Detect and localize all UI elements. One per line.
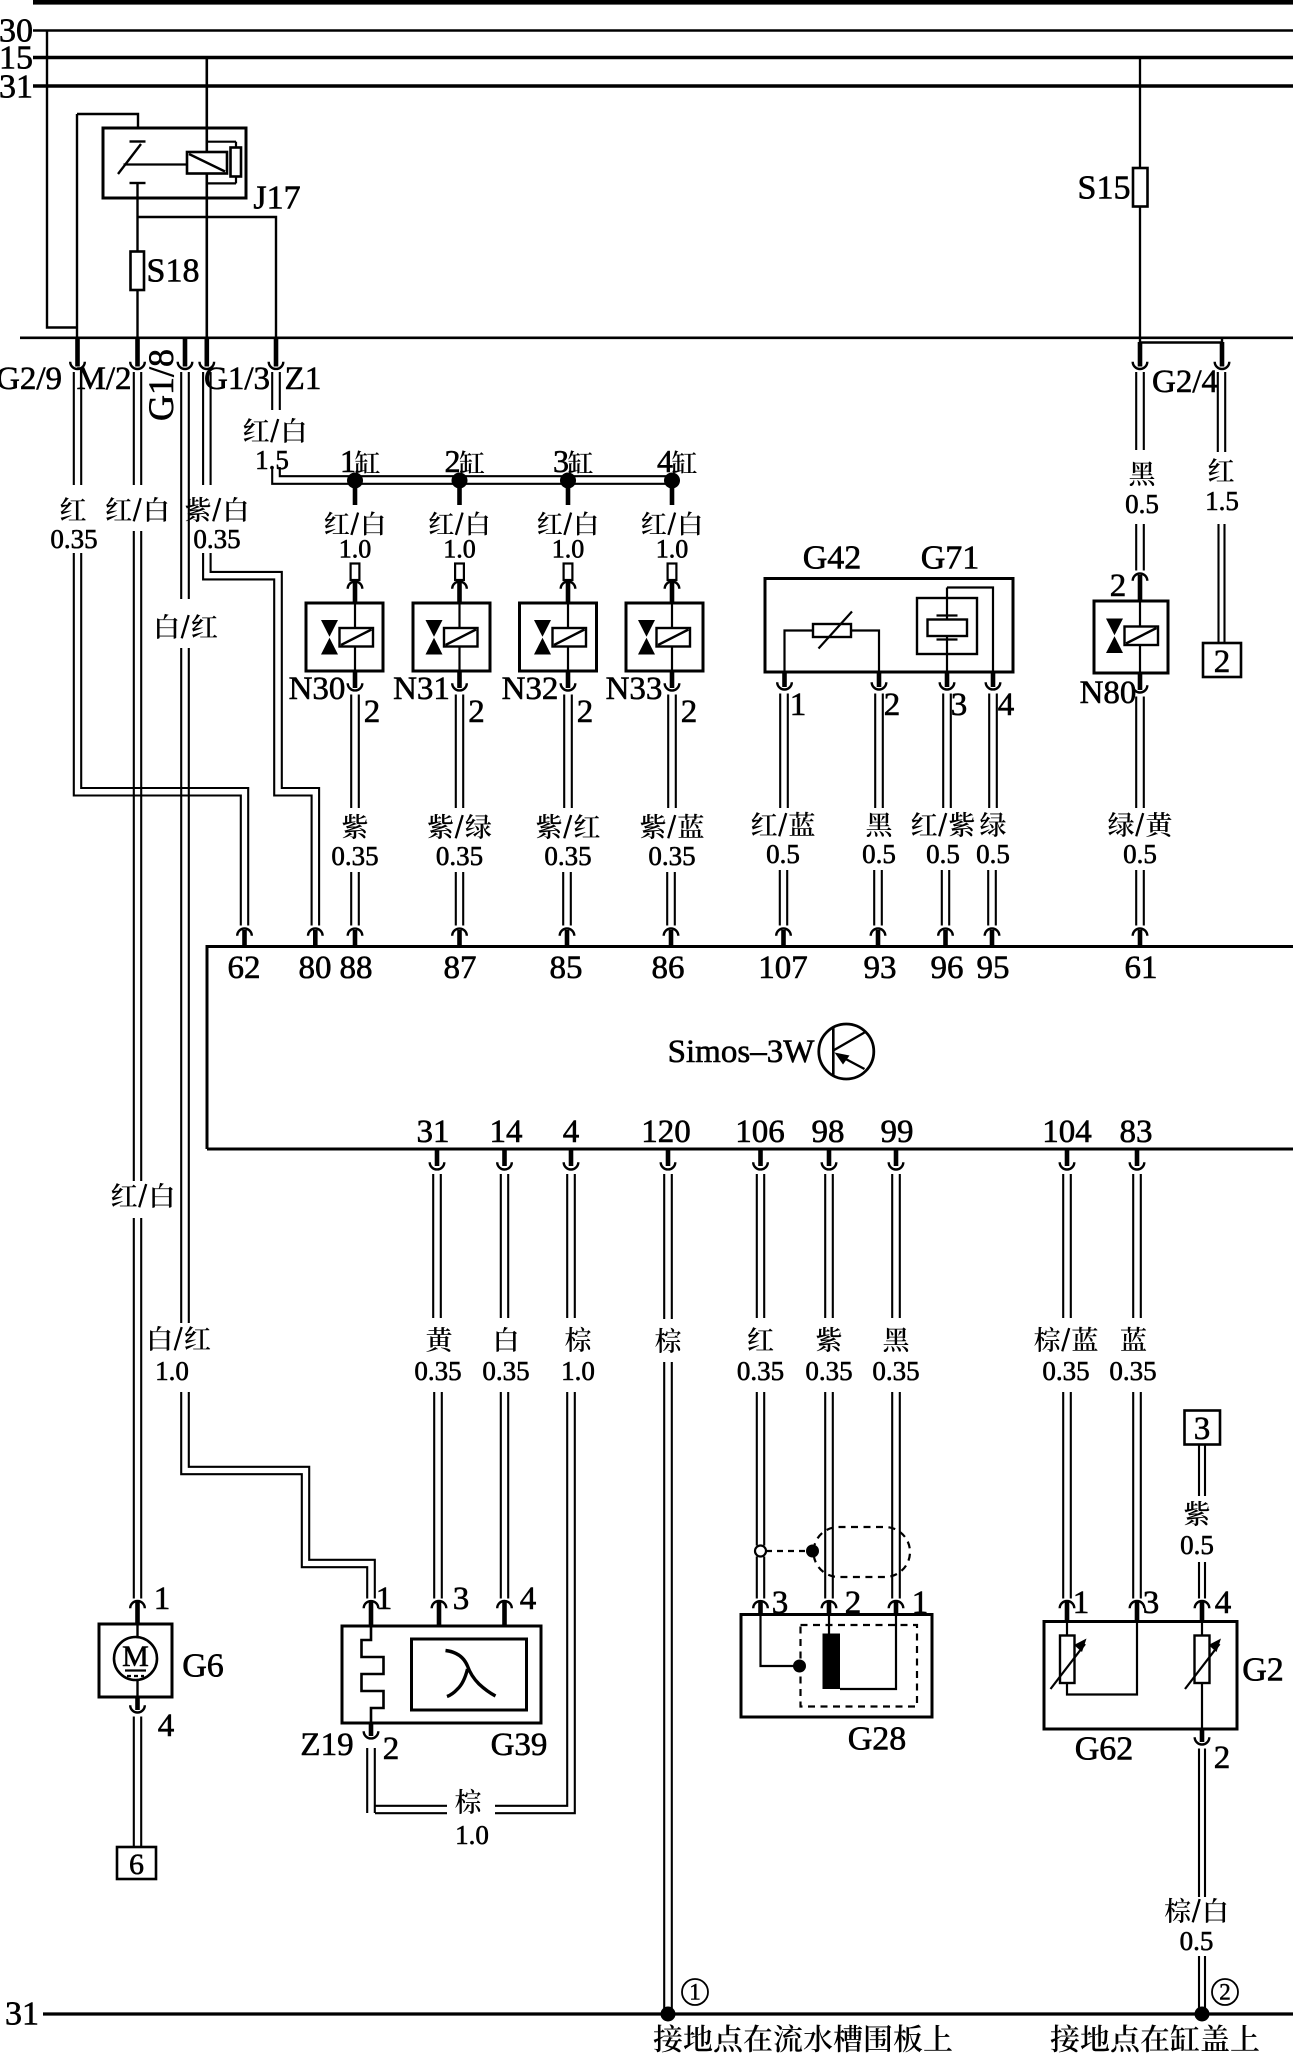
svg-text:Simos–3W: Simos–3W	[668, 1034, 816, 1070]
svg-text:2: 2	[383, 1731, 400, 1767]
svg-text:98: 98	[812, 1114, 845, 1150]
wire blue to G62 pin 3	[1132, 1392, 1134, 1599]
svg-text:6: 6	[129, 1848, 144, 1881]
wire bus15 to coil	[206, 58, 209, 153]
wire green/yellow to pin 61	[1135, 870, 1137, 926]
junction dot cyl 4	[664, 473, 680, 489]
G28 pin 1 cup	[889, 1601, 904, 1608]
wire red to G28 pin 3	[756, 1557, 758, 1599]
ECU pin 88	[348, 929, 363, 936]
ECU pin 85	[560, 928, 575, 935]
svg-text:95: 95	[977, 950, 1010, 986]
N33 pin 2 stub	[670, 671, 675, 688]
svg-text:61: 61	[1125, 950, 1158, 986]
wire violet/white from G1/3 (upper)	[202, 372, 204, 485]
svg-text:1: 1	[790, 687, 807, 723]
G39 inner box	[412, 1639, 527, 1710]
svg-text:0.35: 0.35	[50, 524, 97, 554]
svg-text:31: 31	[5, 1995, 39, 2032]
wire red/white from M/2 (upper)	[133, 372, 135, 485]
ECU Simos-3W box	[207, 947, 1293, 1150]
label brown/white	[1165, 1898, 1191, 1923]
wire bus15 to S15 and panel	[1139, 58, 1141, 339]
wire red 1.5 lower	[1217, 524, 1219, 643]
wire red/blue to pin 107	[779, 870, 781, 926]
svg-text:1.0: 1.0	[155, 1356, 189, 1386]
label white/red 1.0	[150, 1326, 171, 1351]
svg-text:2: 2	[1219, 1980, 1231, 2005]
svg-text:Z1: Z1	[285, 361, 322, 397]
wire white upper	[500, 1174, 502, 1318]
svg-text:93: 93	[864, 950, 897, 986]
G28 pin3 inner wire	[761, 1615, 795, 1666]
wire blue upper	[1132, 1174, 1134, 1318]
fuel pump G6 box	[99, 1624, 172, 1697]
junction dot cyl 3	[560, 473, 576, 489]
svg-text:3: 3	[951, 687, 968, 723]
svg-text:0.5: 0.5	[862, 839, 896, 869]
wire brown/blue upper	[1062, 1174, 1064, 1318]
svg-text:4: 4	[657, 443, 673, 479]
label red/white 2	[112, 1183, 137, 1207]
wire yellow upper	[432, 1174, 434, 1318]
svg-text:0.35: 0.35	[1042, 1356, 1089, 1386]
connector G2/4 pin 2 stub	[1220, 342, 1225, 367]
svg-text:1: 1	[340, 443, 356, 479]
wire violet/green to pin 87	[455, 872, 457, 926]
svg-text:83: 83	[1120, 1114, 1153, 1150]
wire black upper	[874, 694, 876, 809]
svg-text:62: 62	[228, 950, 261, 986]
distributor symbol	[819, 1024, 874, 1079]
ground note 2	[1051, 2024, 1079, 2052]
wire white/red from G1/8 (upper)	[180, 372, 182, 599]
connector G1/8 pin stub	[183, 339, 188, 367]
ECU pin 107	[776, 928, 791, 935]
svg-text:4: 4	[998, 687, 1015, 723]
svg-text:0.5: 0.5	[1180, 1530, 1214, 1560]
svg-text:0.35: 0.35	[482, 1356, 529, 1386]
wire violet 0.35 upper	[824, 1174, 826, 1318]
sensor G28 box	[741, 1615, 932, 1718]
wire violet/blue upper	[667, 695, 669, 809]
svg-text:0.35: 0.35	[331, 841, 378, 871]
N31 injector valve symbol	[413, 603, 490, 671]
G62 potentiometer	[1066, 1622, 1068, 1636]
wire stub to N33	[670, 487, 675, 505]
bus 15 wire	[33, 56, 1293, 60]
G62 pin 1 cup	[1060, 1601, 1075, 1608]
svg-text:0.35: 0.35	[805, 1356, 852, 1386]
svg-text:G28: G28	[848, 1720, 907, 1757]
wire stub to N30	[353, 487, 358, 505]
svg-text:1.0: 1.0	[561, 1356, 595, 1386]
G2 pin 2 stub	[1200, 1729, 1205, 1742]
label red/white 1.5	[244, 418, 269, 442]
top border bar	[33, 0, 1293, 5]
wire black to G28 pin 1	[891, 1392, 893, 1599]
svg-text:2: 2	[1214, 644, 1231, 680]
wire brown 1.0 down and left	[495, 1392, 567, 1806]
wire violet 0.35 upper	[350, 695, 352, 809]
sensor box G42/G71	[765, 579, 1013, 673]
wire red/blue upper	[779, 694, 781, 809]
svg-text:M: M	[122, 1640, 149, 1673]
shield junction dot	[806, 1545, 819, 1558]
J17 relay coil	[187, 152, 227, 174]
knock sensor G71 inner box	[917, 598, 977, 654]
svg-text:1.0: 1.0	[656, 535, 689, 564]
wire black to N80 pin 2	[1135, 524, 1137, 571]
bus 31 wire	[33, 84, 1293, 88]
svg-text:0.5: 0.5	[1180, 1926, 1214, 1956]
fuse S18	[131, 252, 145, 291]
relay J17 box	[103, 128, 246, 198]
injector feed rail	[272, 467, 672, 484]
svg-text:3: 3	[1194, 1411, 1211, 1447]
Z19/G39 pin 4 cup	[497, 1601, 512, 1608]
svg-text:G2: G2	[1242, 1651, 1284, 1688]
wire violet/red upper	[563, 695, 565, 809]
svg-text:4: 4	[158, 1708, 175, 1744]
wire black 0.35 upper	[891, 1174, 893, 1318]
svg-text:G6: G6	[182, 1647, 224, 1684]
junction dot cyl 1	[347, 473, 363, 489]
G62 pin 3 cup	[1130, 1601, 1145, 1608]
Z19 heater element	[362, 1626, 384, 1723]
wire red/violet to pin 96	[941, 870, 943, 926]
svg-text:96: 96	[931, 950, 964, 986]
svg-text:120: 120	[641, 1114, 691, 1150]
J17 coil parallel resistor	[207, 141, 236, 143]
svg-text:G42: G42	[803, 539, 862, 576]
svg-text:G39: G39	[491, 1727, 548, 1763]
wire violet/white to ECU pin 80	[203, 553, 312, 926]
terminal box 6	[117, 1847, 156, 1879]
Z19 pin 2 stub	[369, 1723, 374, 1736]
wire red 0.35 upper	[756, 1174, 758, 1318]
svg-text:1: 1	[689, 1980, 701, 2005]
N31 pin 2 stub	[457, 671, 462, 688]
wire white/red middle	[180, 648, 182, 1323]
G6 motor symbol	[136, 1624, 138, 1639]
wire switch bottom to Z1 stub	[138, 217, 277, 338]
wire brown/white upper	[1198, 1749, 1200, 1898]
G28 pin 3 cup	[753, 1601, 768, 1608]
wire from bus 30 to node at x77	[47, 31, 77, 328]
G71 piezo element	[937, 614, 958, 616]
G6 pin 1 cup	[130, 1601, 145, 1608]
wire coil to panel (G1/3)	[206, 174, 209, 339]
wire white to G39 pin 4	[500, 1392, 502, 1599]
wire violet to G2 pin 4	[1198, 1562, 1200, 1599]
Z19/G39 pin 1 cup	[364, 1601, 379, 1608]
svg-text:2: 2	[468, 694, 485, 730]
svg-text:M/2: M/2	[76, 361, 131, 397]
wire G42 to pin 1	[785, 631, 814, 673]
G28 pin 2 cup	[822, 1601, 837, 1608]
ECU pin 62	[237, 929, 252, 936]
G28 pin1 inner wire	[840, 1615, 896, 1689]
G28 inner shield dot	[793, 1660, 806, 1673]
wire G6 to terminal 6	[133, 1717, 135, 1848]
dashed shield link	[766, 1550, 806, 1552]
G62 pin 4 cup	[1195, 1601, 1210, 1608]
svg-text:3: 3	[453, 1581, 470, 1617]
N32 pin 2 stub	[566, 671, 571, 688]
svg-text:2: 2	[364, 694, 381, 730]
svg-text:N30: N30	[289, 671, 346, 707]
svg-text:G1/8: G1/8	[141, 349, 181, 421]
ground symbol 2	[1212, 1979, 1238, 2005]
shield tap open circle	[755, 1546, 766, 1557]
wire green upper	[988, 694, 990, 809]
svg-text:4: 4	[520, 1581, 537, 1617]
wire stub to N32	[566, 487, 571, 505]
N80 pin 2 cup	[1133, 573, 1148, 580]
N30 injector valve symbol	[306, 603, 383, 671]
bus 30 wire	[33, 29, 1293, 32]
wire red 1.5 upper	[1217, 372, 1219, 452]
G6 pin 4 stub	[135, 1697, 140, 1710]
wire brown to ground point 1	[663, 1362, 665, 2012]
terminal box 3	[1185, 1411, 1221, 1445]
svg-text:1: 1	[376, 1581, 393, 1617]
N30 top pin	[351, 564, 360, 581]
wire brown 1.0 upper	[566, 1174, 568, 1318]
connector Z1 pin stub	[274, 339, 279, 367]
wire red 0.35 to ECU pin 62	[74, 553, 241, 926]
ground junction 2	[1195, 2007, 1210, 2022]
wire violet 0.5 upper	[1198, 1445, 1200, 1497]
wire black 0.5 from G2/4	[1135, 372, 1137, 450]
svg-text:104: 104	[1042, 1114, 1092, 1150]
wire black to pin 93	[873, 870, 875, 926]
connector M/2 pin stub	[135, 339, 140, 367]
label red	[61, 497, 86, 521]
svg-text:2: 2	[884, 687, 901, 723]
wire white/red to Z19 pin 1	[181, 1392, 367, 1599]
ground junction 1	[661, 2007, 676, 2022]
svg-text:0.5: 0.5	[976, 839, 1010, 869]
svg-text:4: 4	[1215, 1585, 1232, 1621]
N80 canister purge valve	[1094, 601, 1168, 673]
ground note 1	[654, 2024, 682, 2052]
svg-text:1.0: 1.0	[552, 535, 585, 564]
svg-text:S15: S15	[1078, 169, 1131, 206]
wire brown (120) upper	[663, 1174, 665, 1319]
wire stub to N31	[457, 487, 462, 505]
svg-text:80: 80	[299, 950, 332, 986]
svg-text:0.35: 0.35	[544, 841, 591, 871]
wire switch arm to coil	[124, 163, 188, 165]
wire green to pin 95	[987, 870, 989, 926]
N32 injector valve symbol	[520, 603, 597, 671]
svg-text:31: 31	[417, 1114, 450, 1150]
svg-text:2: 2	[1110, 568, 1127, 604]
wire G42 to pin 2	[851, 631, 879, 673]
svg-text:0.5: 0.5	[1123, 839, 1157, 869]
svg-text:N32: N32	[502, 671, 559, 707]
label white/red	[157, 614, 178, 639]
ECU pin 93	[871, 928, 886, 935]
svg-text:G62: G62	[1075, 1730, 1134, 1767]
connector G2/4 bracket	[1140, 338, 1222, 343]
svg-text:2: 2	[577, 694, 594, 730]
wire red/white 1.5 from Z1 (upper)	[271, 372, 273, 410]
wire red to shield circle	[756, 1392, 758, 1546]
N33 top pin	[668, 564, 677, 581]
wire yellow to G39 pin 3	[433, 1392, 435, 1599]
G42/G71 pin 3 stub	[945, 672, 950, 687]
G42/G71 pin 2 stub	[877, 672, 882, 687]
G28 sensor element	[823, 1634, 841, 1690]
thermistor G42	[813, 624, 851, 637]
svg-text:1: 1	[154, 1581, 171, 1617]
wire violet to G28 pin 2	[824, 1392, 826, 1599]
svg-text:88: 88	[340, 950, 373, 986]
label red/white	[106, 497, 131, 521]
terminal box 2	[1203, 643, 1241, 677]
G2 potentiometer	[1201, 1622, 1203, 1636]
svg-text:1: 1	[1073, 1585, 1090, 1621]
G42/G71 pin 1 stub	[782, 672, 787, 687]
wire brown/blue to G62 pin 1	[1062, 1392, 1064, 1599]
svg-text:G2/9: G2/9	[0, 361, 62, 397]
svg-text:3: 3	[1143, 1585, 1160, 1621]
svg-text:N80: N80	[1080, 675, 1137, 711]
wire green/yellow upper	[1135, 697, 1137, 809]
svg-text:1.0: 1.0	[455, 1820, 489, 1850]
lambda probe Z19/G39 box	[342, 1626, 541, 1723]
label violet/white	[186, 497, 211, 522]
wire G71 sensor vertical	[946, 588, 948, 673]
wire brown 1.0 left part	[375, 1805, 447, 1807]
svg-text:0.35: 0.35	[737, 1356, 784, 1386]
svg-text:0.35: 0.35	[414, 1356, 461, 1386]
bus 31 bottom wire	[43, 2012, 1293, 2015]
svg-text:4: 4	[563, 1114, 580, 1150]
wire violet/green upper	[455, 695, 457, 809]
wire J17 switch top loop	[77, 114, 138, 128]
ECU pin 95	[985, 928, 1000, 935]
Z19/G39 pin 3 cup	[432, 1601, 447, 1608]
svg-text:107: 107	[758, 950, 808, 986]
label brown	[455, 1789, 481, 1814]
N32 top pin	[564, 564, 573, 581]
wire J17 switch branch down to panel	[76, 114, 78, 338]
svg-text:1.0: 1.0	[443, 535, 476, 564]
svg-text:N33: N33	[606, 671, 663, 707]
svg-text:0.5: 0.5	[926, 839, 960, 869]
wire brown 1.0 up to Z19 pin 2	[374, 1748, 376, 1813]
svg-text:86: 86	[652, 950, 685, 986]
connector G1/3 pin stub	[205, 339, 210, 367]
shield capsule (dashed)	[814, 1527, 911, 1577]
svg-text:2: 2	[445, 443, 461, 479]
ECU pin 96	[938, 929, 953, 936]
svg-text:2: 2	[1214, 1740, 1231, 1776]
svg-text:106: 106	[735, 1114, 785, 1150]
svg-text:1.5: 1.5	[1205, 486, 1239, 516]
wire brown/white to ground 2	[1198, 1956, 1200, 2012]
wire violet/red to pin 85	[562, 872, 564, 926]
G28 pin2 inner wire	[828, 1615, 830, 1634]
svg-text:3: 3	[553, 443, 569, 479]
svg-text:99: 99	[881, 1114, 914, 1150]
ECU pin 61	[1133, 929, 1148, 936]
svg-text:1.0: 1.0	[339, 535, 372, 564]
lambda curve	[446, 1651, 496, 1697]
svg-text:0.35: 0.35	[872, 1356, 919, 1386]
connector G2/4 pin 1 stub	[1138, 342, 1143, 367]
svg-text:0.35: 0.35	[193, 524, 240, 554]
N31 top pin	[455, 564, 464, 581]
connector G2/9 pin stub	[75, 339, 80, 367]
N30 pin 2 stub	[353, 671, 358, 688]
wire switch bottom through S18 to panel	[136, 184, 138, 339]
fuse S15	[1133, 168, 1148, 207]
wire violet to pin 88	[350, 872, 352, 926]
svg-text:S18: S18	[147, 252, 200, 289]
svg-text:Z19: Z19	[300, 1727, 353, 1763]
ECU pin 87	[452, 929, 467, 936]
svg-text:14: 14	[490, 1114, 523, 1150]
svg-text:0.35: 0.35	[436, 841, 483, 871]
svg-text:2: 2	[681, 694, 698, 730]
svg-text:85: 85	[550, 950, 583, 986]
svg-text:G2/4: G2/4	[1152, 364, 1218, 400]
wire G71 to pin 4	[947, 588, 993, 673]
wire red 0.35 from G2/9 (upper)	[73, 372, 75, 485]
svg-text:0.35: 0.35	[648, 841, 695, 871]
svg-text:G1/3: G1/3	[204, 361, 270, 397]
G42/G71 pin 4 stub	[991, 672, 996, 687]
wire red/white to G6 pin 1	[133, 1218, 135, 1599]
ECU pin 80	[308, 929, 323, 936]
wire violet/blue to pin 86	[666, 872, 668, 926]
wire red/violet upper	[942, 694, 944, 809]
wire red/white middle	[133, 531, 135, 1181]
J17 switch contact	[130, 140, 146, 142]
sensor G62/G2 box	[1044, 1622, 1237, 1730]
svg-text:N31: N31	[393, 671, 450, 707]
ECU pin 86	[664, 928, 679, 935]
ground symbol 1	[682, 1979, 708, 2005]
svg-text:0.5: 0.5	[766, 839, 800, 869]
N80 bottom stub	[1138, 673, 1143, 690]
N33 injector valve symbol	[626, 603, 703, 671]
junction dot cyl 2	[452, 473, 468, 489]
svg-text:G71: G71	[921, 539, 980, 576]
svg-text:31: 31	[0, 68, 33, 105]
svg-text:87: 87	[444, 950, 477, 986]
svg-text:J17: J17	[253, 179, 300, 216]
connector-panel rail	[20, 336, 1293, 339]
G28 dashed inner box	[801, 1625, 918, 1707]
svg-text:0.5: 0.5	[1125, 489, 1159, 519]
svg-text:0.35: 0.35	[1109, 1356, 1156, 1386]
